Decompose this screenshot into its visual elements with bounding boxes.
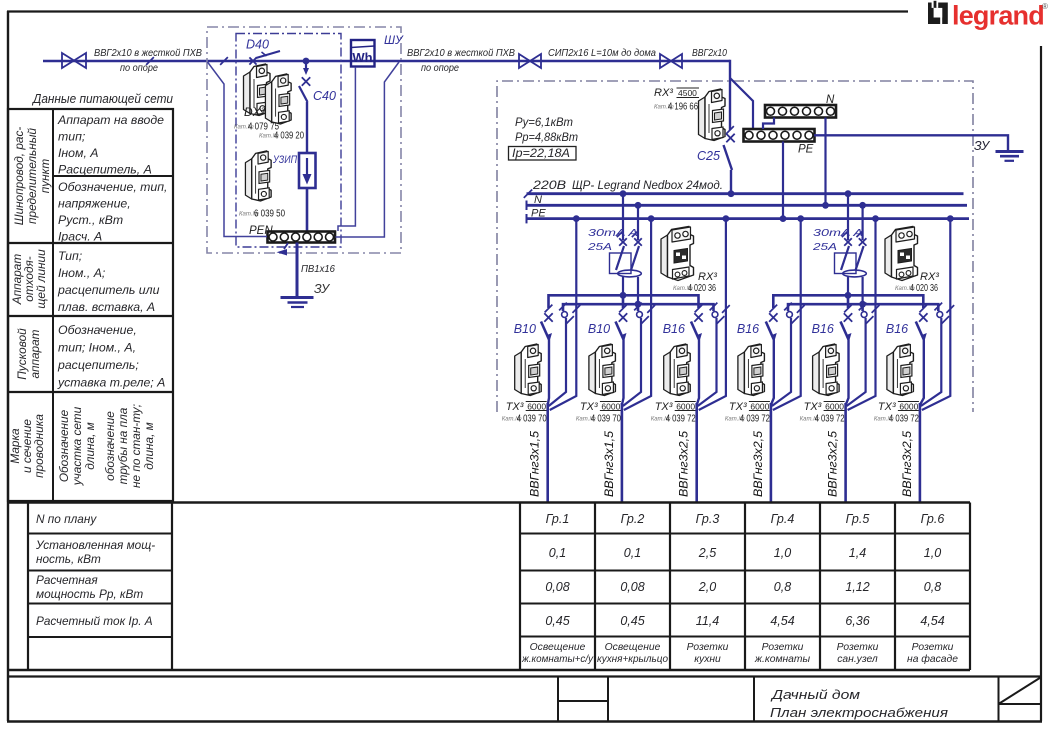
svg-text:СИП2х16 L=10м до дома: СИП2х16 L=10м до дома — [548, 48, 656, 59]
svg-text:Розетки: Розетки — [912, 642, 954, 653]
svg-text:Тип;: Тип; — [58, 249, 82, 263]
svg-text:0,8: 0,8 — [774, 580, 791, 594]
svg-text:Розетки: Розетки — [837, 642, 879, 653]
svg-text:0,45: 0,45 — [620, 614, 644, 628]
wire: phase to cable — [548, 340, 549, 406]
svg-text:6,36: 6,36 — [845, 614, 869, 628]
svg-text:1,0: 1,0 — [924, 546, 941, 560]
svg-text:4500: 4500 — [678, 88, 697, 98]
svg-text:4 039 70: 4 039 70 — [517, 414, 547, 425]
breaker pictogram TX3 4 039 70 — [576, 344, 621, 425]
wire: cable Гр.1 — [530, 403, 548, 502]
Legrand logo — [928, 1, 1048, 31]
svg-text:Гр.6: Гр.6 — [921, 512, 945, 526]
svg-text:ВВГнг3х1,5: ВВГнг3х1,5 — [604, 430, 616, 497]
svg-text:Дачный дом: Дачный дом — [770, 687, 861, 702]
svg-text:кухни: кухни — [694, 654, 721, 665]
svg-text:11,4: 11,4 — [696, 614, 719, 628]
svg-text:Гр.2: Гр.2 — [621, 512, 645, 526]
svg-text:0,45: 0,45 — [545, 614, 569, 628]
breaker pictogram TX3 4 039 72 — [874, 344, 919, 425]
svg-text:ЗУ: ЗУ — [314, 282, 331, 296]
svg-text:на фасаде: на фасаде — [907, 653, 958, 665]
wire: PE to cable — [550, 219, 580, 410]
svg-text:RX³: RX³ — [654, 87, 673, 99]
svg-text:Wh: Wh — [352, 50, 372, 65]
svg-text:Расчетный ток Iр. А: Расчетный ток Iр. А — [36, 614, 153, 628]
svg-text:0,1: 0,1 — [549, 546, 566, 560]
wire: cable Гр.6 — [902, 403, 920, 502]
circuit breaker D40 — [246, 38, 280, 65]
wire: PE to cable — [773, 219, 805, 410]
svg-text:C40: C40 — [313, 89, 336, 103]
svg-text:N: N — [534, 194, 542, 206]
svg-text:B16: B16 — [886, 322, 908, 336]
circuit breaker C25 — [697, 126, 735, 193]
svg-text:0,8: 0,8 — [924, 580, 941, 594]
svg-text:Гр.1: Гр.1 — [546, 512, 570, 526]
breaker pictogram DX3 407975 — [234, 64, 304, 142]
RCD 30mA 25A — [587, 194, 642, 308]
svg-text:Iр=22,18А: Iр=22,18А — [512, 148, 570, 160]
wire: N to cable — [772, 318, 791, 406]
N contact — [634, 303, 649, 324]
svg-text:Ру=6,1кВт: Ру=6,1кВт — [515, 117, 573, 129]
RCD pictogram RX3 402036 — [661, 227, 717, 295]
svg-text:4 039 20: 4 039 20 — [274, 131, 304, 142]
svg-text:Освещение: Освещение — [605, 642, 661, 653]
PE bar — [744, 129, 815, 156]
svg-text:сан.узел: сан.узел — [837, 654, 878, 665]
svg-text:®: ® — [1042, 2, 1048, 11]
feeder data table — [8, 91, 174, 501]
ground ЗУ (right) — [996, 152, 1024, 161]
svg-text:Данные питающей сети: Данные питающей сети — [31, 91, 173, 106]
svg-text:Гр.3: Гр.3 — [696, 512, 720, 526]
svg-text:B10: B10 — [588, 322, 610, 336]
wire: C40 to SPD — [306, 102, 308, 153]
svg-text:Расчетная: Расчетная — [36, 573, 98, 587]
svg-text:Обозначение: Обозначение — [57, 409, 71, 482]
ground ЗУ (left) — [281, 282, 332, 307]
svg-text:Шинопровод, рас-: Шинопровод, рас- — [12, 127, 26, 226]
svg-text:2,0: 2,0 — [698, 580, 716, 594]
wire: PE to cable — [699, 219, 730, 410]
svg-text:С25: С25 — [697, 149, 720, 163]
wire: N to cable — [921, 318, 941, 406]
svg-text:220В: 220В — [532, 180, 567, 192]
wire: drop to C25 — [729, 60, 731, 130]
wire: N to cable — [847, 318, 866, 406]
surge protector УЗИП — [272, 153, 315, 188]
wire: meter tail — [338, 67, 355, 231]
wire: N to cable — [549, 318, 566, 406]
svg-text:ВВГ2х10 в жесткой ПХВ: ВВГ2х10 в жесткой ПХВ — [94, 48, 202, 59]
breaker pictogram TX3 4 039 72 — [800, 344, 845, 425]
svg-text:4,54: 4,54 — [920, 614, 944, 628]
svg-text:ЗУ: ЗУ — [974, 139, 991, 153]
wire: N to cable — [698, 318, 717, 406]
svg-text:TX³: TX³ — [580, 401, 598, 413]
svg-text:Обозначение, тип,: Обозначение, тип, — [58, 180, 167, 194]
svg-text:25A: 25A — [587, 241, 612, 253]
svg-text:Гр.5: Гр.5 — [846, 512, 870, 526]
svg-text:TX³: TX³ — [506, 401, 524, 413]
svg-text:PE: PE — [531, 208, 546, 220]
N bar — [765, 94, 836, 118]
PE arrow under bar — [277, 243, 289, 256]
valve symbol: line break right — [660, 54, 682, 68]
svg-text:тип; Iном., А,: тип; Iном., А, — [58, 341, 136, 355]
PEN bar — [249, 225, 335, 243]
svg-text:щей линии: щей линии — [34, 249, 48, 309]
wire: cable Гр.3 — [679, 403, 697, 502]
svg-text:уставка т.реле; А: уставка т.реле; А — [57, 376, 165, 390]
svg-text:обозначение: обозначение — [103, 411, 117, 481]
breaker pictogram TX3 4 039 72 — [651, 344, 696, 425]
N contact — [559, 303, 574, 324]
table row labels — [35, 512, 155, 628]
svg-text:пункт: пункт — [38, 159, 52, 194]
svg-text:аппарат: аппарат — [28, 329, 42, 378]
cabinet ШУ dashed outline — [207, 27, 404, 253]
svg-text:План электроснабжения: План электроснабжения — [770, 705, 948, 720]
svg-text:4 039 72: 4 039 72 — [815, 414, 845, 425]
RCD 30mA 25A — [812, 194, 867, 308]
svg-text:1,4: 1,4 — [849, 546, 866, 560]
svg-text:ВВГнг3х2,5: ВВГнг3х2,5 — [753, 430, 765, 497]
wire: phase to cable — [846, 340, 849, 406]
results table — [8, 503, 970, 671]
wire: cable Гр.5 — [828, 403, 846, 502]
svg-text:ПВ1х16: ПВ1х16 — [301, 263, 335, 275]
svg-text:длина, м: длина, м — [142, 422, 156, 469]
N contact — [934, 303, 949, 324]
wire: overhead feeder line — [43, 60, 730, 62]
svg-text:4 039 72: 4 039 72 — [740, 414, 770, 425]
wire: PE to cable — [922, 219, 954, 410]
svg-text:Рр=4,88кВт: Рр=4,88кВт — [515, 132, 578, 144]
breaker pictogram TX3 4 039 70 — [502, 344, 547, 425]
svg-text:N по плану: N по плану — [36, 512, 97, 526]
svg-text:RX³: RX³ — [920, 271, 939, 283]
wire: PE bar down to PE bus — [782, 142, 784, 219]
svg-text:TX³: TX³ — [655, 401, 673, 413]
svg-text:по опоре: по опоре — [120, 63, 158, 74]
svg-text:Аппарат на вводе: Аппарат на вводе — [57, 113, 164, 127]
svg-text:Обозначение,: Обозначение, — [58, 323, 137, 337]
svg-text:не по стан-ту;: не по стан-ту; — [129, 404, 143, 488]
svg-text:Пусковой: Пусковой — [15, 328, 29, 380]
wire: PE bar to earth ЗУ — [814, 135, 1008, 153]
bus N — [527, 194, 968, 210]
svg-text:ВВГ2х10: ВВГ2х10 — [692, 48, 727, 59]
svg-text:плав. вставка, А: плав. вставка, А — [58, 300, 155, 314]
circuit breaker B16 group 4 — [737, 305, 778, 342]
wire ПВ1х16 to earth — [297, 243, 335, 298]
svg-text:напряжение,: напряжение, — [58, 197, 131, 211]
N contact — [710, 303, 725, 324]
svg-text:4 196 66: 4 196 66 — [668, 102, 698, 113]
svg-text:Розетки: Розетки — [687, 642, 729, 653]
label: ВВГ2х10 в жесткой ПХВ (right) — [407, 48, 515, 74]
svg-text:4,54: 4,54 — [770, 614, 794, 628]
wire: phase comb groups 4-6 — [773, 295, 923, 308]
wire: N to cable — [623, 318, 641, 406]
wire: PE to cable — [624, 219, 655, 410]
power data labels — [509, 117, 579, 160]
circuit breaker C40 — [299, 64, 336, 103]
circuit breaker B16 group 6 — [886, 305, 928, 342]
table values — [521, 512, 958, 665]
svg-text:ВВГ2х10 в жесткой ПХВ: ВВГ2х10 в жесткой ПХВ — [407, 48, 515, 59]
title block — [8, 677, 1041, 722]
svg-text:1,0: 1,0 — [774, 546, 791, 560]
svg-text:по опоре: по опоре — [421, 63, 459, 74]
wire: N comb groups 4-6 — [788, 304, 938, 311]
svg-text:0,08: 0,08 — [620, 580, 644, 594]
valve symbol: line break left — [62, 53, 86, 68]
circuit breaker B16 group 3 — [663, 305, 703, 342]
node: bus junctions — [573, 190, 954, 222]
svg-text:25A: 25A — [812, 241, 837, 253]
svg-text:RX³: RX³ — [698, 271, 717, 283]
svg-text:тип;: тип; — [58, 130, 85, 144]
wire: enclosure left conductor — [208, 62, 268, 237]
svg-text:4 020 36: 4 020 36 — [910, 283, 938, 294]
svg-text:ШУ: ШУ — [384, 33, 404, 47]
breaker pictogram RX3 419666 — [654, 87, 725, 141]
svg-text:DX³: DX³ — [244, 105, 266, 119]
svg-text:Руст., кВт: Руст., кВт — [58, 213, 123, 227]
svg-text:проводника: проводника — [32, 414, 46, 478]
N contact — [784, 303, 799, 324]
svg-text:4 039 72: 4 039 72 — [889, 414, 919, 425]
svg-text:Освещение: Освещение — [530, 642, 586, 653]
svg-text:4 020 36: 4 020 36 — [688, 283, 716, 294]
RCD pictogram RX3 402036 — [885, 227, 939, 295]
svg-text:B16: B16 — [663, 322, 685, 336]
svg-text:0,08: 0,08 — [545, 580, 569, 594]
breaker pictogram 603950 (SPD product) — [239, 151, 285, 220]
svg-text:0,1: 0,1 — [624, 546, 641, 560]
wire: phase comb groups 1-3 — [549, 295, 699, 308]
svg-text:мощность Рр, кВт: мощность Рр, кВт — [36, 587, 143, 601]
node: junction after D40 — [303, 58, 310, 65]
breaker pictogram TX3 4 039 72 — [725, 344, 770, 425]
wire: cable Гр.2 — [604, 403, 622, 502]
svg-text:кухня+крыльцо: кухня+крыльцо — [597, 654, 668, 665]
wire: enclosure right conductor — [336, 62, 400, 237]
svg-text:Установленная мощ-: Установленная мощ- — [35, 538, 155, 552]
svg-text:B16: B16 — [737, 322, 759, 336]
wire: SPD to PEN bar — [306, 188, 309, 232]
wire: phase to cable — [697, 340, 699, 406]
svg-text:1,12: 1,12 — [845, 580, 869, 594]
wire: PE to cable — [848, 219, 880, 410]
svg-text:4 039 72: 4 039 72 — [666, 414, 696, 425]
label: ВВГ2х10 в жесткой ПХВ (left) — [94, 48, 202, 74]
bus L 220В — [524, 178, 964, 198]
svg-text:ВВГнг3х2,5: ВВГнг3х2,5 — [679, 430, 691, 497]
svg-text:PE: PE — [798, 144, 814, 156]
svg-text:длина, м: длина, м — [83, 422, 97, 469]
svg-text:6 039 50: 6 039 50 — [254, 209, 285, 220]
svg-text:TX³: TX³ — [878, 401, 896, 413]
svg-text:пределительный: пределительный — [25, 128, 39, 224]
svg-text:TX³: TX³ — [804, 401, 822, 413]
svg-text:трубы на пла: трубы на пла — [116, 407, 130, 484]
svg-text:ж.комнаты: ж.комнаты — [754, 654, 811, 665]
inner dashed box — [236, 34, 341, 248]
energy meter Wh — [351, 40, 375, 67]
svg-text:30mA A: 30mA A — [813, 227, 863, 239]
svg-text:ВВГнг3х2,5: ВВГнг3х2,5 — [828, 430, 840, 497]
svg-text:Iном, А: Iном, А — [58, 146, 99, 160]
svg-text:30mA A: 30mA A — [588, 227, 638, 239]
valve symbol: line break mid — [519, 54, 541, 68]
svg-text:Iрасч. А: Iрасч. А — [58, 230, 102, 244]
svg-text:ВВГнг3х1,5: ВВГнг3х1,5 — [530, 430, 542, 497]
wire: phase to cable — [622, 340, 624, 406]
svg-text:расцепитель;: расцепитель; — [57, 358, 139, 372]
cabinet ЩР dashed outline — [497, 81, 973, 412]
svg-text:Гр.4: Гр.4 — [771, 512, 795, 526]
svg-text:ж.комнаты+с/у: ж.комнаты+с/у — [521, 654, 594, 665]
N contact — [859, 303, 874, 324]
svg-text:TX³: TX³ — [729, 401, 747, 413]
svg-text:ность, кВт: ность, кВт — [36, 552, 101, 566]
wire: PEN feed diagonal to PE bar — [730, 78, 753, 129]
wire: N bar to N bus — [824, 118, 826, 205]
svg-text:Расцепитель, А: Расцепитель, А — [58, 163, 152, 177]
svg-text:legrand: legrand — [952, 1, 1044, 31]
svg-text:расцепитель или: расцепитель или — [57, 283, 160, 297]
label: СИП2х16 — [548, 48, 656, 59]
svg-text:2,5: 2,5 — [698, 546, 716, 560]
wire: cable Гр.4 — [753, 403, 771, 502]
wire: phase to cable — [920, 340, 924, 406]
svg-text:D40: D40 — [246, 38, 269, 52]
circuit breaker B16 group 5 — [812, 305, 853, 342]
label: ВВГ2х10 — [692, 48, 727, 59]
svg-text:B10: B10 — [514, 322, 536, 336]
svg-text:УЗИП: УЗИП — [272, 154, 297, 166]
circuit breaker B10 group 2 — [588, 305, 627, 342]
wire tick — [146, 57, 228, 65]
svg-text:Iном., А;: Iном., А; — [58, 266, 105, 280]
svg-text:B16: B16 — [812, 322, 834, 336]
svg-text:ЩР- Legrand Nedbox 24мод.: ЩР- Legrand Nedbox 24мод. — [572, 178, 723, 192]
circuit breaker B10 group 1 — [514, 305, 553, 342]
wire: phase to cable — [771, 340, 774, 406]
wire: jumper PE bar to N bar — [763, 118, 774, 130]
svg-text:Розетки: Розетки — [762, 642, 804, 653]
wire: N comb groups 1-3 — [563, 304, 714, 311]
svg-text:4 039 70: 4 039 70 — [591, 414, 621, 425]
svg-text:участка сети: участка сети — [70, 406, 84, 486]
bus PE — [527, 208, 970, 224]
svg-text:ВВГнг3х2,5: ВВГнг3х2,5 — [902, 430, 914, 497]
